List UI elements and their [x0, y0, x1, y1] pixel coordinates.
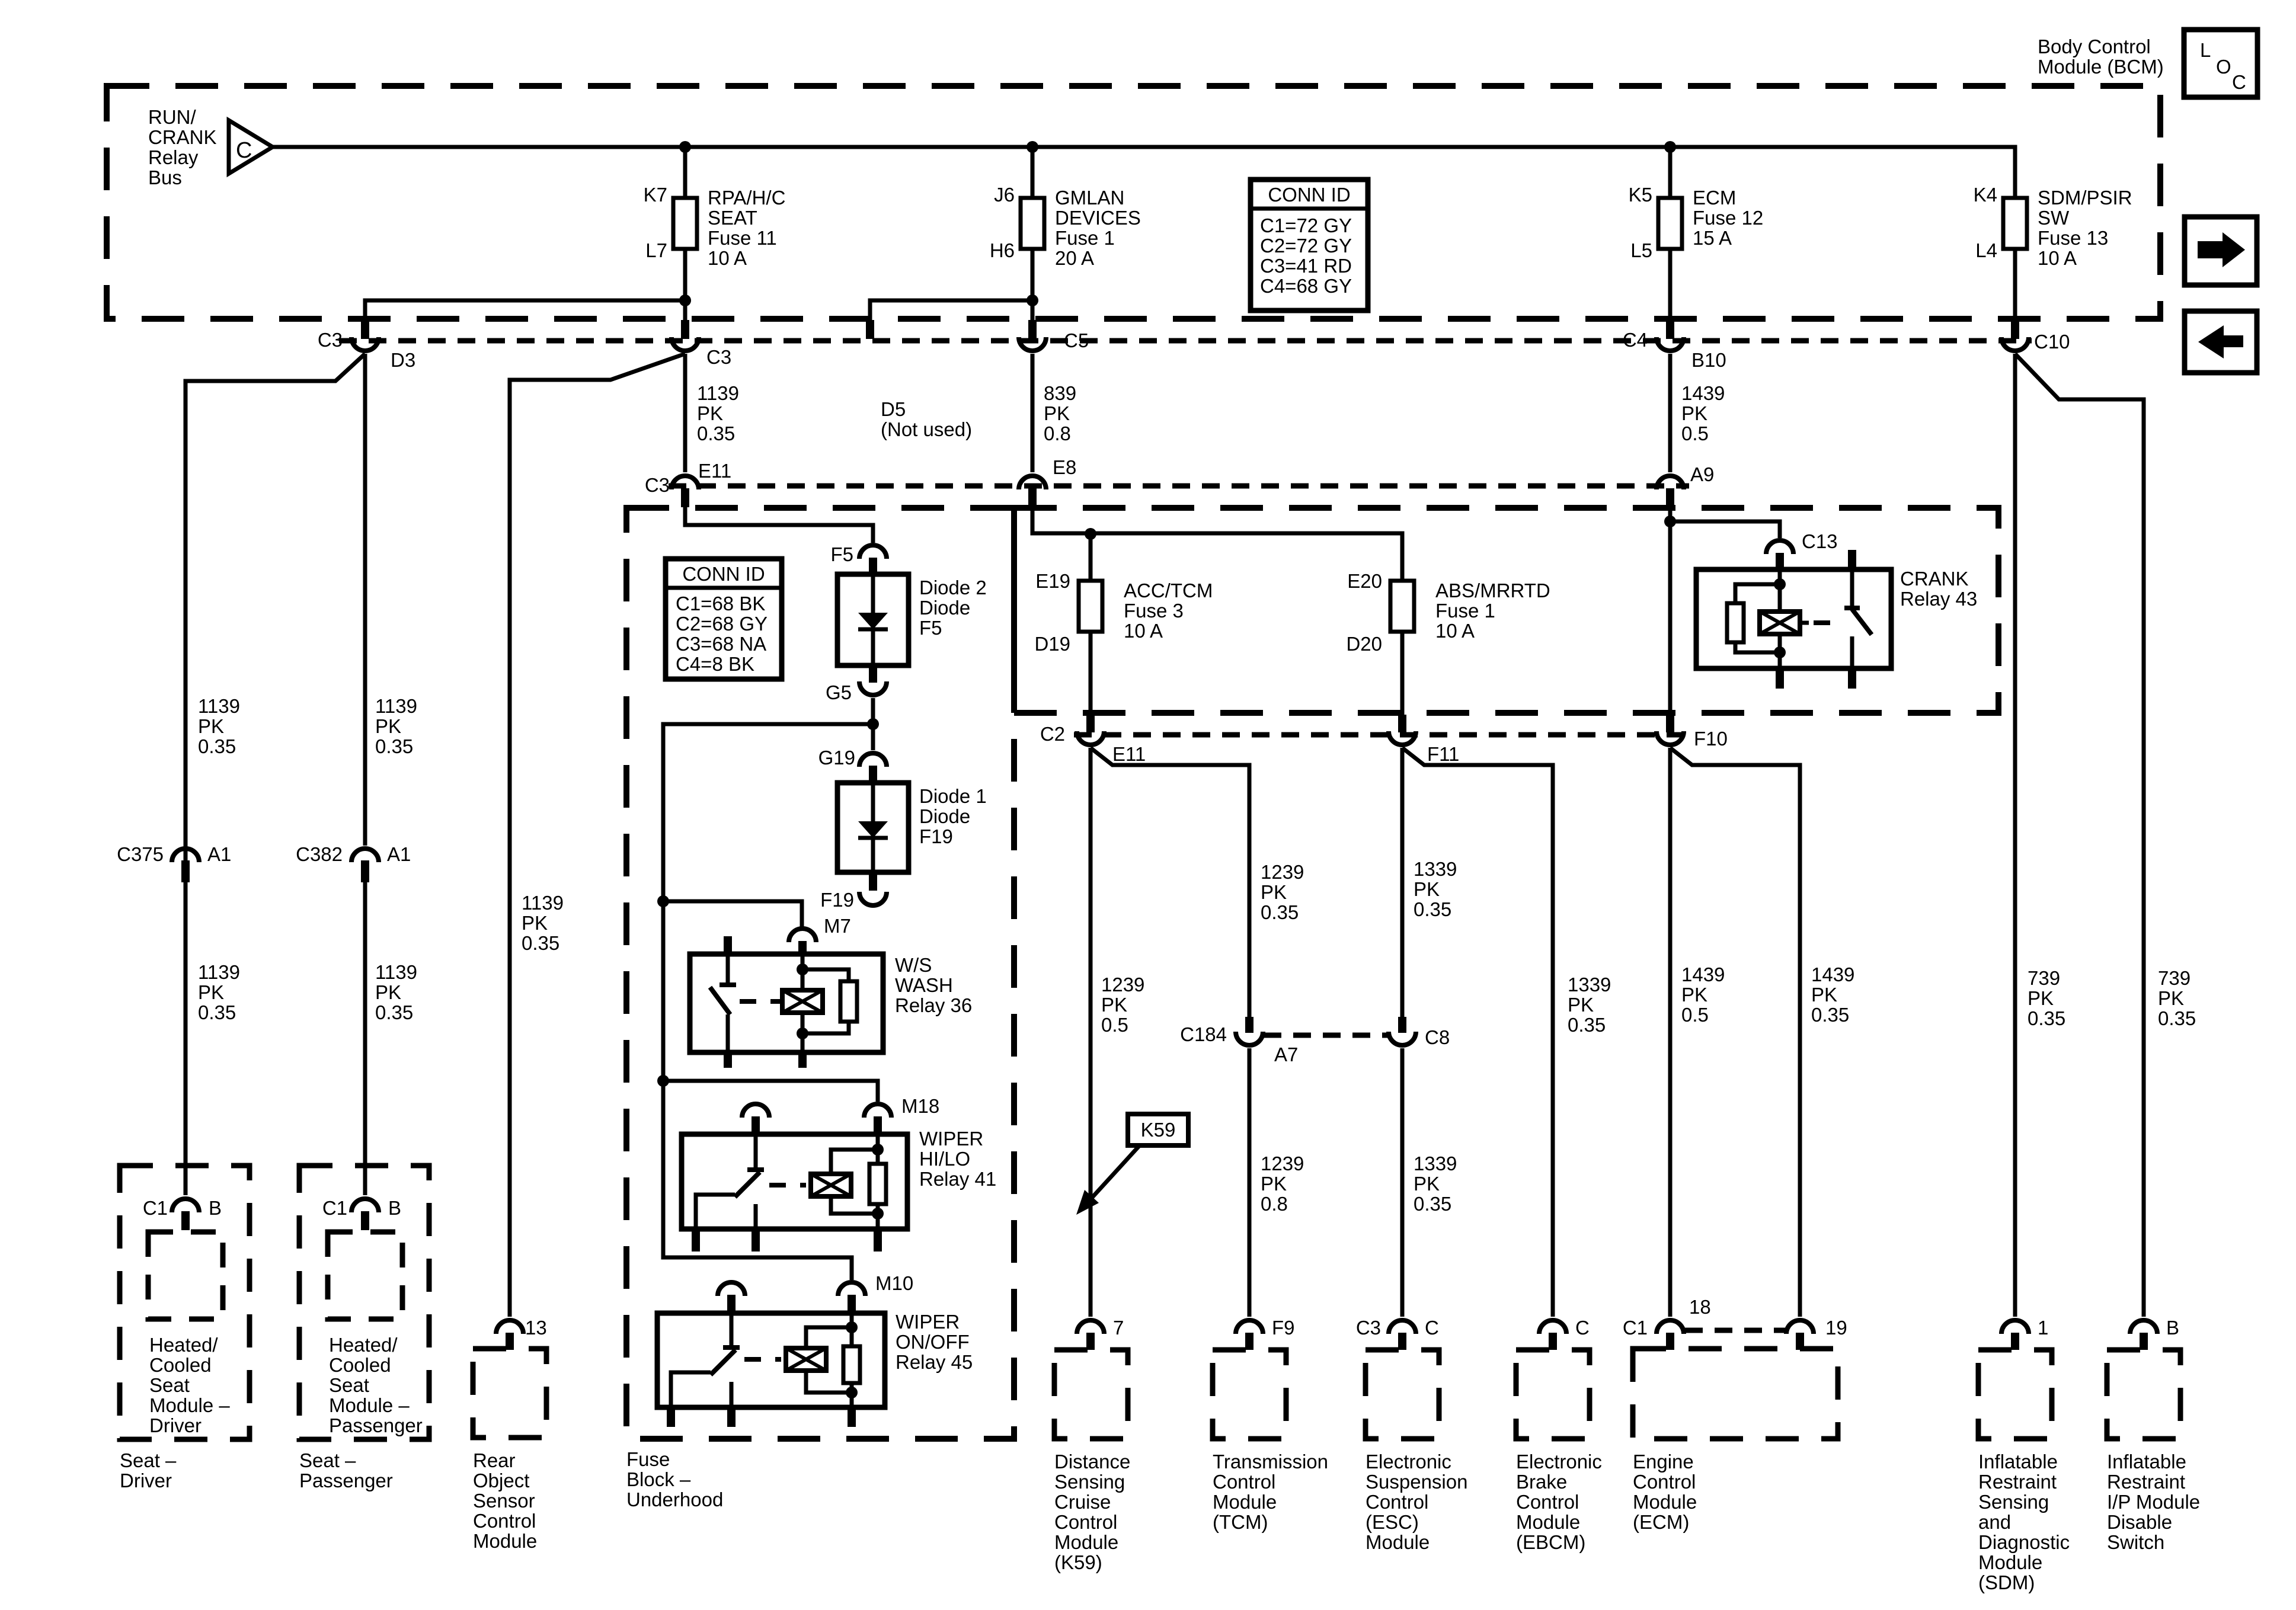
svg-text:C3: C3 [318, 329, 343, 351]
relay R41 coil bottom stub [874, 1229, 882, 1251]
relay R45 coil bottom stub [848, 1407, 856, 1427]
svg-text:Control: Control [1054, 1511, 1117, 1533]
wire A9 down to F10 [1668, 507, 1673, 715]
module Disable Switch box [2107, 1350, 2180, 1439]
legend arrow-right box [2185, 217, 2257, 285]
svg-text:Driver: Driver [149, 1414, 202, 1436]
relay R45 coil path [850, 1314, 854, 1346]
svg-text:Restraint: Restraint [2107, 1471, 2185, 1493]
svg-text:Sensing: Sensing [1054, 1471, 1125, 1493]
stub C1 driver [181, 1211, 190, 1230]
svg-text:L4: L4 [1975, 239, 1997, 261]
svg-text:Brake: Brake [1516, 1471, 1567, 1493]
junction R36 coil bottom [797, 1028, 808, 1039]
relay R45 switch left stub [667, 1407, 675, 1427]
stub C EBCM [1549, 1333, 1557, 1350]
svg-text:1439: 1439 [1681, 964, 1725, 985]
module Electronic Suspension Control Module box [1366, 1350, 1439, 1439]
stub M10 [848, 1295, 856, 1314]
svg-text:Module: Module [1633, 1491, 1697, 1513]
stub C4 [1666, 320, 1674, 339]
svg-text:1139: 1139 [697, 382, 739, 404]
wire K5 feed [1668, 147, 1673, 198]
stub 13 [506, 1333, 514, 1350]
svg-text:C3: C3 [1356, 1317, 1381, 1339]
svg-text:Module: Module [473, 1530, 537, 1552]
stub E8 [1028, 488, 1037, 507]
svg-text:K59: K59 [1141, 1119, 1176, 1141]
svg-text:D5: D5 [881, 398, 906, 420]
relay R43 coil path [1778, 569, 1782, 612]
svg-text:C3=41 RD: C3=41 RD [1260, 255, 1352, 277]
stub C3/C [1398, 1333, 1406, 1350]
connector F5 [859, 545, 887, 559]
svg-text:M7: M7 [824, 915, 851, 937]
seat driver outer dashed box [120, 1166, 250, 1439]
wire C2 to K59 module [1089, 748, 1093, 1317]
svg-text:Fuse 13: Fuse 13 [2038, 227, 2108, 249]
relay R36 resistor [802, 969, 849, 981]
svg-text:F9: F9 [1272, 1317, 1295, 1339]
svg-text:1: 1 [2038, 1317, 2048, 1339]
wire branch to C3/D3 [365, 300, 685, 332]
connector G5 [859, 681, 887, 695]
svg-text:PK: PK [1414, 1173, 1440, 1195]
wire C3 to E11 [683, 354, 687, 472]
svg-text:PK: PK [198, 981, 224, 1003]
svg-text:0.35: 0.35 [522, 932, 559, 954]
legend LOC box [2184, 30, 2257, 97]
svg-text:(ECM): (ECM) [1633, 1511, 1689, 1533]
connector F10 [1657, 731, 1684, 745]
svg-text:D3: D3 [391, 349, 415, 371]
svg-text:(TCM): (TCM) [1213, 1511, 1268, 1533]
svg-text:DEVICES: DEVICES [1055, 207, 1141, 229]
svg-text:Restraint: Restraint [1978, 1471, 2057, 1493]
junction K7-D3 branch [679, 295, 691, 306]
buffer C RUN/CRANK relay bus [229, 120, 273, 174]
wire C3 to rear object sensor [510, 354, 685, 1317]
svg-text:0.35: 0.35 [1811, 1004, 1849, 1026]
svg-text:C5: C5 [1064, 329, 1089, 351]
svg-text:L5: L5 [1630, 239, 1652, 261]
svg-text:C4=8 BK: C4=8 BK [676, 653, 754, 675]
svg-text:Heated/: Heated/ [149, 1334, 218, 1356]
svg-text:Cooled: Cooled [329, 1354, 391, 1376]
wire branch to C13 [1670, 521, 1780, 538]
svg-text:Diagnostic: Diagnostic [1978, 1531, 2070, 1553]
junction E19-ABS branch [1085, 528, 1096, 540]
module SDM box [1978, 1350, 2052, 1439]
stub C375 [181, 860, 190, 882]
wire J6 feed [1031, 147, 1035, 198]
svg-text:0.35: 0.35 [1261, 901, 1299, 923]
svg-text:B10: B10 [1691, 349, 1726, 371]
svg-text:Sensing: Sensing [1978, 1491, 2049, 1513]
stub C184 [1245, 1017, 1253, 1033]
connector C3/D3 [351, 337, 379, 351]
relay R36 coil [782, 990, 823, 1013]
connector C13 [1766, 540, 1793, 554]
svg-text:0.8: 0.8 [1044, 422, 1071, 444]
svg-text:G19: G19 [818, 747, 855, 769]
svg-text:M18: M18 [901, 1095, 939, 1117]
svg-text:PK: PK [1261, 881, 1287, 903]
svg-text:Fuse 12: Fuse 12 [1693, 207, 1763, 229]
svg-text:SEAT: SEAT [708, 207, 757, 229]
fuse E19 ACC/TCM Fuse 3 10A [1079, 581, 1102, 632]
BCM module dashed box [107, 86, 2160, 319]
fuse E20 ABS/MRRTD Fuse 1 10A [1390, 581, 1414, 632]
svg-text:A9: A9 [1690, 463, 1714, 485]
wire K7 feed [683, 147, 687, 198]
svg-text:WIPER: WIPER [919, 1128, 983, 1150]
svg-text:C382: C382 [296, 843, 343, 865]
relay R36 switch bottom stub [724, 1052, 732, 1068]
svg-text:ACC/TCM: ACC/TCM [1124, 580, 1213, 601]
svg-text:C3: C3 [645, 474, 670, 496]
fuse K5 ECM Fuse 12 15A [1658, 198, 1682, 249]
svg-text:Diode 2: Diode 2 [919, 577, 987, 598]
svg-text:20 A: 20 A [1055, 247, 1094, 269]
svg-text:RUN/: RUN/ [148, 106, 196, 128]
svg-text:M10: M10 [875, 1272, 913, 1294]
svg-text:CRANK: CRANK [1900, 568, 1969, 590]
svg-text:F19: F19 [820, 889, 854, 911]
svg-text:PK: PK [375, 981, 401, 1003]
svg-text:A1: A1 [207, 843, 231, 865]
svg-text:Fuse 1: Fuse 1 [1055, 227, 1115, 249]
svg-text:1139: 1139 [375, 695, 417, 717]
legend arrow-left box [2185, 311, 2257, 373]
relay R41 switch left stub [692, 1229, 700, 1251]
junction bus-K5 [1664, 141, 1676, 153]
relay R36 switch [726, 956, 730, 985]
svg-text:19: 19 [1825, 1317, 1847, 1339]
wire C10 to disable switch [2015, 354, 2144, 1317]
svg-text:Object: Object [473, 1470, 529, 1491]
diode D1 box [837, 783, 909, 872]
relay R45 dashed actuator link [744, 1357, 781, 1362]
svg-text:F10: F10 [1694, 728, 1728, 750]
svg-text:HI/LO: HI/LO [919, 1148, 970, 1170]
connector row 1 dotted line [339, 338, 2032, 344]
svg-text:F19: F19 [919, 825, 953, 847]
svg-text:Relay 45: Relay 45 [896, 1351, 973, 1373]
relay R45 resistor [843, 1346, 860, 1383]
CONN ID table fuse block [666, 559, 782, 679]
wire branch to M18 [663, 1081, 878, 1102]
svg-text:C: C [2232, 71, 2246, 93]
relay R43 resistor [1727, 603, 1744, 642]
svg-text:B: B [388, 1197, 401, 1219]
svg-text:K7: K7 [644, 184, 667, 206]
svg-text:1239: 1239 [1261, 1153, 1304, 1174]
svg-text:A7: A7 [1274, 1044, 1298, 1065]
connector A9 [1657, 476, 1684, 489]
svg-text:Sensor: Sensor [473, 1490, 535, 1512]
svg-text:839: 839 [1044, 382, 1076, 404]
svg-text:PK: PK [1261, 1173, 1287, 1195]
stub C10 [2011, 320, 2019, 339]
svg-text:Control: Control [1516, 1491, 1579, 1513]
wire K5 to C4 [1668, 249, 1673, 332]
svg-text:Cruise: Cruise [1054, 1491, 1111, 1513]
svg-text:C10: C10 [2034, 331, 2070, 353]
svg-text:(K59): (K59) [1054, 1551, 1102, 1573]
svg-text:G5: G5 [826, 681, 852, 703]
svg-text:C1=72 GY: C1=72 GY [1260, 215, 1352, 236]
junction bus-K7 [679, 141, 691, 153]
svg-text:Switch: Switch [2107, 1531, 2164, 1553]
junction left bus M18 [657, 1075, 669, 1087]
wire J6 to C5 [1031, 249, 1035, 332]
stub E11 [681, 488, 689, 507]
svg-text:CONN ID: CONN ID [682, 563, 765, 585]
wire E19 to C2 [1089, 632, 1093, 715]
svg-text:Module: Module [1978, 1551, 2042, 1573]
svg-text:1139: 1139 [198, 695, 240, 717]
svg-text:A1: A1 [387, 843, 411, 865]
svg-text:Cooled: Cooled [149, 1354, 212, 1376]
svg-text:15 A: 15 A [1693, 227, 1732, 249]
stub F5 [869, 558, 877, 574]
svg-text:B: B [2166, 1317, 2179, 1339]
svg-text:Fuse 1: Fuse 1 [1435, 600, 1495, 622]
relay R41 switch [754, 1134, 758, 1170]
svg-text:C2: C2 [1040, 723, 1065, 745]
svg-text:ABS/MRRTD: ABS/MRRTD [1435, 580, 1550, 601]
relay R41 box WIPER HI/LO Relay 41 [682, 1134, 907, 1229]
svg-text:D20: D20 [1346, 633, 1382, 655]
svg-text:10 A: 10 A [1124, 620, 1163, 642]
svg-text:SW: SW [2038, 207, 2070, 229]
svg-text:Control: Control [1366, 1491, 1428, 1513]
svg-text:W/S: W/S [895, 954, 932, 976]
svg-text:PK: PK [1681, 402, 1707, 424]
stub 1 [2011, 1333, 2019, 1350]
relay R41 coil path [876, 1135, 880, 1164]
svg-text:Diode 1: Diode 1 [919, 785, 987, 807]
relay R43 dashed actuator link [1814, 620, 1841, 625]
svg-text:Passenger: Passenger [329, 1414, 423, 1436]
stub F19 [869, 872, 877, 891]
junction R45 coil top [846, 1321, 858, 1333]
svg-text:F11: F11 [1427, 743, 1459, 765]
annex dashed box (fuse block right section) [1014, 508, 1998, 713]
stub R41 switch pin [752, 1116, 760, 1135]
svg-text:C184: C184 [1180, 1023, 1227, 1045]
connector 19 ECM [1786, 1320, 1814, 1334]
junction R41 coil bottom [872, 1208, 884, 1219]
svg-text:L: L [2200, 39, 2211, 61]
svg-text:0.35: 0.35 [198, 1001, 236, 1023]
connector 18/C1 ECM [1657, 1320, 1684, 1334]
svg-text:B: B [209, 1197, 222, 1219]
svg-text:10 A: 10 A [2038, 247, 2077, 269]
stub C382 [361, 860, 369, 882]
svg-text:Relay 36: Relay 36 [895, 994, 972, 1016]
connector 7 K59 [1077, 1320, 1104, 1334]
connector C5 [1019, 337, 1046, 351]
relay R43 switch bottom stub [1848, 668, 1856, 689]
svg-text:1439: 1439 [1681, 382, 1725, 404]
svg-text:PK: PK [198, 715, 224, 737]
callout K59 arrow [1089, 1146, 1139, 1201]
stub 7 [1086, 1333, 1095, 1350]
svg-text:Module (BCM): Module (BCM) [2038, 56, 2164, 78]
relay R36 dashed actuator link [740, 999, 780, 1004]
svg-text:Module –: Module – [329, 1394, 410, 1416]
svg-text:E19: E19 [1035, 570, 1070, 592]
stub D5 not used [866, 320, 874, 339]
svg-text:7: 7 [1113, 1317, 1124, 1339]
connector C4/B10 [1657, 337, 1684, 351]
connector C3 (fuse11) [671, 337, 699, 351]
fuse J6 GMLAN DEVICES Fuse 1 20A [1021, 198, 1044, 249]
svg-text:10 A: 10 A [1435, 620, 1475, 642]
fuse K4 SDM/PSIR SW Fuse 13 10A [2003, 198, 2027, 249]
svg-text:(EBCM): (EBCM) [1516, 1531, 1585, 1553]
svg-text:C13: C13 [1802, 530, 1838, 552]
svg-text:0.8: 0.8 [1261, 1193, 1288, 1215]
svg-text:C3: C3 [706, 346, 731, 368]
svg-text:Fuse 11: Fuse 11 [708, 227, 777, 249]
dotted link 18-19 [1685, 1328, 1785, 1333]
svg-text:E11: E11 [1112, 743, 1146, 765]
connector E8 [1019, 476, 1046, 489]
svg-text:Suspension: Suspension [1366, 1471, 1467, 1493]
Fuse Block Underhood dashed box [626, 508, 1014, 1439]
svg-text:C375: C375 [117, 843, 164, 865]
svg-text:C: C [236, 138, 252, 163]
connector C2/E11 [1077, 731, 1104, 745]
svg-text:PK: PK [1101, 994, 1127, 1016]
svg-text:1339: 1339 [1414, 1153, 1457, 1174]
svg-text:1339: 1339 [1414, 858, 1457, 880]
svg-text:0.35: 0.35 [375, 735, 413, 757]
callout K59 box [1128, 1114, 1188, 1145]
connector C3/C ESC [1389, 1320, 1416, 1334]
svg-text:SDM/PSIR: SDM/PSIR [2038, 187, 2132, 209]
svg-text:C1: C1 [322, 1197, 347, 1219]
svg-text:Body Control: Body Control [2038, 36, 2151, 57]
stub C2 [1086, 715, 1095, 732]
svg-text:Module –: Module – [149, 1394, 230, 1416]
svg-text:739: 739 [2028, 967, 2060, 989]
svg-text:18: 18 [1689, 1296, 1711, 1318]
stub G5 [869, 665, 877, 683]
connector C1/B passenger [351, 1199, 379, 1212]
stub C5 [1028, 320, 1037, 339]
wire branch to D5 [870, 300, 1032, 323]
junction R43 coil bottom [1774, 646, 1786, 658]
svg-text:C2=68 GY: C2=68 GY [676, 613, 768, 635]
diode D2 Diode 2 F5 [871, 574, 875, 665]
connector R45 switch pin [718, 1282, 745, 1296]
connector C8 [1389, 1032, 1416, 1045]
diode D2 box [837, 574, 909, 665]
svg-text:C8: C8 [1425, 1026, 1450, 1048]
connector C3/E11 [671, 476, 699, 489]
svg-text:C: C [1425, 1317, 1439, 1339]
svg-text:C4=68 GY: C4=68 GY [1260, 275, 1352, 297]
svg-text:0.35: 0.35 [697, 422, 735, 444]
svg-text:PK: PK [1414, 878, 1440, 900]
connector F19 [859, 892, 887, 905]
svg-text:Control: Control [1213, 1471, 1275, 1493]
svg-text:Relay: Relay [148, 146, 199, 168]
connector 1 SDM [2001, 1320, 2029, 1334]
svg-text:Relay 41: Relay 41 [919, 1168, 996, 1190]
connector R41 switch pin [742, 1104, 769, 1118]
wire branch to E20 fuse [1091, 533, 1402, 581]
svg-text:C1: C1 [1623, 1317, 1648, 1339]
junction R43 coil top [1774, 578, 1786, 590]
svg-text:Module: Module [1213, 1491, 1277, 1513]
stub G19 [869, 766, 877, 783]
wire bus RUN/CRANK [273, 147, 2015, 198]
svg-text:0.35: 0.35 [2028, 1007, 2065, 1029]
svg-text:1339: 1339 [1568, 974, 1611, 996]
svg-text:Disable: Disable [2107, 1511, 2172, 1533]
stub C8 [1398, 1017, 1406, 1033]
module Heated/Cooled Seat Module Driver box [148, 1232, 223, 1319]
relay R36 coil path [801, 956, 805, 990]
wire C3/D3 to C375 branch [186, 354, 365, 1195]
svg-text:Inflatable: Inflatable [1978, 1451, 2058, 1473]
svg-text:PK: PK [2028, 987, 2054, 1009]
wire F11 to EBCM [1402, 748, 1553, 1317]
svg-text:1139: 1139 [375, 961, 417, 983]
diode D1 Diode 1 F19 [871, 783, 875, 872]
svg-text:(Not used): (Not used) [881, 418, 972, 440]
wire F10 to ECM pin 18 [1668, 748, 1673, 1317]
svg-text:0.35: 0.35 [375, 1001, 413, 1023]
wire G5 junction to left bus [663, 724, 873, 1280]
svg-text:I/P Module: I/P Module [2107, 1491, 2200, 1513]
relay R41 coil [811, 1174, 851, 1196]
svg-text:0.5: 0.5 [1681, 422, 1709, 444]
svg-text:1239: 1239 [1101, 974, 1144, 996]
junction A9-C13 branch [1664, 516, 1676, 527]
module Rear Object Sensor Control Module box [473, 1349, 546, 1438]
svg-text:Driver: Driver [120, 1470, 172, 1491]
stub C13 [1776, 553, 1784, 570]
wire E8 to E19 fuse [1032, 507, 1091, 581]
relay R41 dashed actuator link [769, 1183, 806, 1188]
svg-text:Bus: Bus [148, 167, 182, 188]
stub B [2140, 1333, 2148, 1350]
connector C382/A1 [351, 849, 379, 862]
connector 13 rear object [496, 1320, 523, 1334]
svg-text:0.35: 0.35 [1414, 898, 1451, 920]
wire E11 to F5 [685, 507, 873, 543]
relay R43 switch pin stub [1848, 550, 1856, 570]
wire C382 to seat passenger [363, 881, 367, 1195]
svg-text:Electronic: Electronic [1516, 1451, 1602, 1473]
svg-text:CONN ID: CONN ID [1268, 184, 1350, 206]
svg-text:Control: Control [1633, 1471, 1696, 1493]
svg-text:0.35: 0.35 [1568, 1014, 1606, 1036]
svg-text:PK: PK [1811, 984, 1837, 1006]
svg-text:739: 739 [2158, 967, 2191, 989]
svg-text:E11: E11 [698, 460, 731, 482]
svg-text:Seat –: Seat – [120, 1449, 177, 1471]
svg-text:Diode: Diode [919, 597, 970, 619]
relay R45 switch bottom stub [727, 1407, 736, 1427]
svg-text:0.35: 0.35 [2158, 1007, 2196, 1029]
